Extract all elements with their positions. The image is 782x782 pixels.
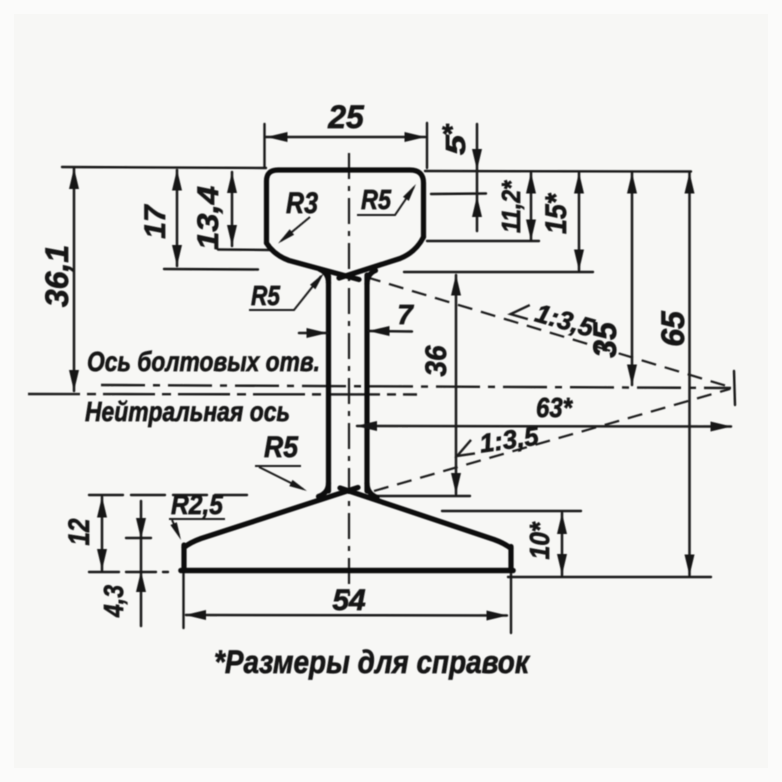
svg-text:17: 17 <box>139 204 172 239</box>
leader R5 bottom <box>255 466 303 489</box>
svg-text:R5: R5 <box>251 280 280 311</box>
arrowheads 11.2 <box>526 173 536 194</box>
neutral axis line <box>28 393 417 396</box>
rail head underside right <box>339 237 424 278</box>
dim line 13.4 <box>231 172 234 246</box>
svg-text:12: 12 <box>63 518 96 545</box>
arrowheads 63 <box>356 421 377 431</box>
rail foot top slope left <box>184 488 358 548</box>
label slope upper <box>509 291 598 343</box>
arrowheads 36 web <box>451 275 461 296</box>
extension line 12 top <box>89 494 247 496</box>
extension tick 4.3 <box>126 537 151 539</box>
extension line 15/36 shared <box>404 271 593 273</box>
svg-text:11,2*: 11,2* <box>496 179 526 233</box>
arrowheads 65 <box>685 173 695 194</box>
extension tick convergence <box>734 371 735 405</box>
leader R5 top right <box>357 187 414 215</box>
svg-text:4,3: 4,3 <box>98 585 129 618</box>
rail web right edge <box>364 275 369 491</box>
dim line 54 <box>186 614 507 617</box>
dim line 7 left <box>299 332 327 335</box>
rail foot top slope right <box>340 488 511 549</box>
extension line 5* bottom <box>431 192 486 195</box>
extension line 13.4 bottom <box>218 248 272 251</box>
svg-text:54: 54 <box>332 584 366 617</box>
svg-text:36: 36 <box>420 345 453 376</box>
svg-text:*Размеры для справок: *Размеры для справок <box>214 644 531 680</box>
extension line top right <box>425 170 691 173</box>
svg-text:10*: 10* <box>524 522 555 560</box>
rail foot right edge <box>508 547 513 571</box>
arrowheads 13.4 <box>227 172 237 193</box>
dim line 17 <box>176 170 179 266</box>
svg-text:R2,5: R2,5 <box>171 489 223 520</box>
svg-text:15*: 15* <box>540 193 573 234</box>
dim line 65 <box>688 173 691 575</box>
extension line 17 bottom <box>164 268 258 271</box>
dim line 10* <box>561 513 564 575</box>
arrowheads 54 <box>185 610 206 620</box>
extension line bottom left <box>89 571 168 573</box>
web top-left fillet <box>320 270 329 284</box>
extension line bottom right <box>508 576 711 578</box>
arrowheads 4.3 <box>136 518 146 539</box>
dim line 5* <box>476 124 479 231</box>
extension line top left <box>62 167 266 168</box>
dim line 25 <box>266 136 425 139</box>
svg-text:63*: 63* <box>536 392 573 423</box>
svg-text:R5: R5 <box>361 184 391 215</box>
svg-text:7: 7 <box>397 299 414 330</box>
svg-text:Нейтральная ось: Нейтральная ось <box>85 396 290 427</box>
svg-text:13,4: 13,4 <box>192 186 225 250</box>
label slope lower <box>454 421 541 462</box>
bolt holes axis line <box>101 385 731 388</box>
svg-text:Ось болтовых отв.: Ось болтовых отв. <box>87 346 320 377</box>
arrowheads 12 <box>97 497 107 518</box>
dim line 4.3 <box>140 501 143 626</box>
slope construction line lower 1:3.5 <box>374 389 730 491</box>
arrowheads 15* <box>574 173 584 194</box>
svg-text:65: 65 <box>655 310 691 347</box>
dim line 12 <box>101 497 104 570</box>
rail head underside left <box>267 243 360 280</box>
dim line 63 <box>357 425 731 428</box>
slope construction line upper 1:3.5 <box>366 277 730 387</box>
web bottom-left fillet <box>319 483 329 497</box>
leader R5 left <box>249 276 321 310</box>
dim line 35 <box>631 173 634 385</box>
leader R2.5 <box>169 519 225 535</box>
svg-text:R5: R5 <box>264 431 299 464</box>
arrowheads 36.1 <box>69 168 79 189</box>
svg-text:25: 25 <box>327 99 365 135</box>
arrowheads 10* <box>557 513 567 534</box>
extension line 25 left <box>263 124 265 167</box>
dim line 36 web <box>455 275 458 494</box>
svg-text:*: * <box>441 118 453 149</box>
web bottom-right fillet <box>367 483 377 498</box>
dim line 15* <box>578 173 581 270</box>
rail foot left edge <box>181 545 186 570</box>
extension line 54 right <box>510 573 512 633</box>
dim line 7 right <box>369 330 412 333</box>
svg-text:R3: R3 <box>286 187 318 220</box>
extension line 11.2 bottom <box>427 240 539 242</box>
dim line 11.2 <box>530 173 533 240</box>
rail foot bottom <box>181 568 513 574</box>
svg-text:36,1: 36,1 <box>39 245 75 307</box>
rail web left edge <box>326 276 331 491</box>
web top-right fillet <box>367 271 376 285</box>
extension line 10 top <box>442 510 581 512</box>
extension line 36 bottom <box>376 495 470 497</box>
arrowheads 25 <box>267 132 288 142</box>
arrowheads 5* <box>472 149 482 170</box>
arrowheads 17 <box>172 170 182 191</box>
rail head outline <box>267 170 424 243</box>
arrowheads 35 <box>627 173 637 194</box>
dim line 36.1 <box>73 168 76 391</box>
vertical centerline <box>348 153 350 601</box>
leader R3 <box>281 217 310 241</box>
arrowheads 7 <box>307 328 328 338</box>
extension line 25 right <box>426 123 428 168</box>
extension line 54 left <box>182 573 184 628</box>
